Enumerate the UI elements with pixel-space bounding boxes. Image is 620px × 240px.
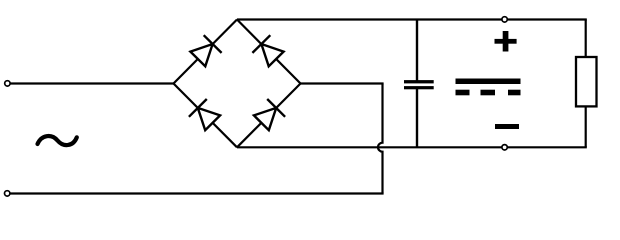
resistor R1 (load)	[576, 57, 597, 106]
wire: negative bottom rail	[237, 146, 587, 148]
wire: AC riser with hop over negative rail	[378, 84, 382, 194]
diode D4 (bridge bottom-right, anode at bottom vertex, cathode toward right vertex)	[254, 99, 285, 130]
diode D2 (bridge top-right, anode at right vertex, cathode toward top vertex)	[252, 35, 283, 66]
wire: bridge side left-bottom	[174, 84, 238, 148]
wire: bridge side bottom-right	[237, 84, 301, 148]
wire: capacitor top lead	[416, 20, 418, 82]
wire: resistor bottom to negative rail	[585, 106, 587, 148]
wire: bridge side left-top	[174, 20, 238, 84]
terminal: AC input bottom	[5, 191, 10, 196]
wire: top AC input (left terminal to bridge left vertex)	[7, 82, 173, 84]
DC symbol solid bar	[456, 79, 521, 85]
wire: bottom AC input (left terminal to riser)	[7, 192, 383, 194]
DC symbol dashed bar	[456, 90, 521, 96]
terminal: DC output positive	[502, 17, 507, 22]
wire: bridge side top-right	[237, 20, 301, 84]
wire: positive top rail	[237, 18, 587, 20]
capacitor C1 plate bottom	[404, 86, 434, 89]
terminal: AC input top	[5, 81, 10, 86]
AC source symbol (sine tilde)	[38, 136, 77, 145]
plus polarity mark	[495, 31, 517, 52]
capacitor C1 plate top	[404, 80, 434, 83]
minus polarity mark	[495, 124, 519, 129]
wire: right drop from top rail to resistor	[585, 20, 587, 59]
wire: capacitor bottom lead	[416, 89, 418, 148]
diode D3 (bridge bottom-left, anode at bottom vertex, cathode toward left vertex)	[189, 99, 220, 130]
wire: bridge right vertex to riser	[301, 82, 384, 84]
terminal: DC output negative	[502, 145, 507, 150]
diode D1 (bridge top-left, anode at left vertex, cathode toward top vertex)	[190, 35, 221, 66]
